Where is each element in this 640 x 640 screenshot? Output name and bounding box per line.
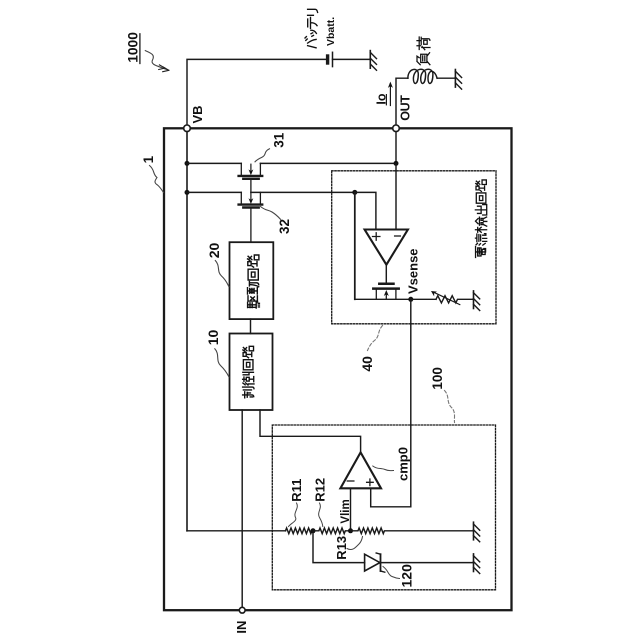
wire zener branch bbox=[313, 531, 365, 563]
svg-text:IN: IN bbox=[234, 621, 249, 634]
leader for 31 bbox=[255, 149, 270, 162]
svg-text:R13: R13 bbox=[334, 536, 349, 560]
wire comparator - input to Vlim bbox=[350, 488, 352, 531]
leader arrow for 1000 bbox=[145, 51, 169, 72]
svg-text:120: 120 bbox=[398, 564, 414, 588]
leader for R13 bbox=[347, 537, 363, 550]
wire block20 to block10 bbox=[250, 319, 252, 333]
label 1000 bbox=[126, 32, 141, 64]
node Vsense dot bbox=[408, 297, 413, 302]
svg-text:VB: VB bbox=[190, 105, 205, 123]
ground (sense resistor) bbox=[474, 291, 480, 311]
wire OUT down to wire1 junction bbox=[395, 132, 397, 164]
svg-text:R11: R11 bbox=[289, 479, 304, 502]
inductor (load) bbox=[408, 69, 437, 83]
wire2 left segment bbox=[187, 191, 241, 193]
zener diode 120 bbox=[365, 553, 385, 572]
control circuit block 10 bbox=[230, 334, 273, 411]
wire block10 to comparator output bbox=[260, 410, 361, 452]
node OUT bbox=[393, 95, 413, 132]
svg-text:40: 40 bbox=[359, 356, 375, 372]
wire VB riser to battery bbox=[187, 59, 326, 125]
resistor R11 bbox=[286, 528, 314, 534]
leader for 10 bbox=[215, 349, 229, 377]
VB rail down the left bbox=[186, 132, 188, 531]
leader for 32 bbox=[261, 207, 281, 220]
svg-text:OUT: OUT bbox=[398, 95, 412, 121]
wire op-amp output to sense FET gate bbox=[385, 265, 387, 283]
transistor 31 bbox=[239, 163, 263, 192]
junction OUT-wire1 bbox=[394, 161, 399, 166]
ground (battery) bbox=[370, 51, 376, 71]
leader for 40 (dashed) bbox=[368, 326, 383, 351]
drive circuit block 20 bbox=[230, 242, 274, 319]
svg-text:20: 20 bbox=[206, 243, 222, 259]
wire Vsense down to comparator + bbox=[371, 299, 411, 507]
wire dot to op-amp + input bbox=[355, 192, 376, 229]
transistor 32 bbox=[239, 192, 263, 242]
svg-text:R12: R12 bbox=[313, 478, 328, 502]
svg-text:31: 31 bbox=[272, 132, 287, 148]
wire1 right segment bbox=[260, 162, 396, 164]
leader for 1 bbox=[150, 166, 164, 193]
wire zener to ground bbox=[381, 562, 474, 564]
leader for cmp0 bbox=[373, 466, 394, 471]
leader for 100 (dashed) bbox=[445, 391, 455, 423]
wire inductor to ground bbox=[437, 77, 455, 79]
junction wire2 dot bbox=[352, 190, 357, 195]
svg-text:Vlim: Vlim bbox=[340, 499, 352, 523]
wire1 left segment bbox=[187, 162, 241, 164]
comparator cmp0 (pointing up) bbox=[340, 452, 381, 488]
svg-text:10: 10 bbox=[205, 330, 221, 346]
svg-text:cmp0: cmp0 bbox=[396, 447, 411, 481]
svg-text:Vsense: Vsense bbox=[405, 248, 420, 294]
resistor line from VB rail bbox=[187, 530, 286, 532]
junction R11-R12 dot bbox=[311, 528, 316, 533]
leader for 20 bbox=[215, 261, 229, 287]
svg-text:32: 32 bbox=[277, 219, 292, 234]
junction VB-wire2 bbox=[185, 190, 190, 195]
label 負荷 bbox=[417, 37, 430, 65]
leader for R11 bbox=[289, 503, 298, 527]
current-detection dashed box 40 bbox=[332, 171, 496, 324]
label バッテリ bbox=[305, 9, 318, 48]
battery B1 bbox=[328, 52, 333, 66]
svg-text:Vbatt.: Vbatt. bbox=[325, 17, 337, 46]
node VB bbox=[184, 105, 205, 131]
ground (load) bbox=[455, 70, 461, 90]
node Vlim dot bbox=[348, 528, 353, 533]
label 駆動回路 (drive circuit) in block 20 bbox=[248, 255, 260, 308]
svg-text:1: 1 bbox=[141, 155, 156, 163]
Io arrow bbox=[374, 82, 393, 106]
wire op-amp - input from wire1 junction bbox=[395, 163, 397, 229]
node IN bbox=[234, 607, 249, 633]
wire block10 left lead down to IN bbox=[241, 410, 243, 607]
leader for R12 bbox=[319, 503, 323, 527]
chip outer boundary 1 bbox=[164, 128, 512, 610]
variable resistor Rs bbox=[411, 291, 474, 305]
op-amp U1 (current sense amp, pointing down) bbox=[365, 230, 408, 265]
label 電流検出回路 (current detection circuit) bbox=[475, 180, 486, 258]
wire2 right segment bbox=[251, 191, 355, 193]
comparator dashed box 100 bbox=[272, 425, 495, 590]
wire dot down to sense rail bbox=[354, 192, 356, 299]
sense FET bbox=[355, 284, 411, 300]
resistor R13 bbox=[351, 528, 474, 534]
wire battery to ground bbox=[333, 58, 371, 60]
resistor R12 bbox=[313, 528, 351, 534]
ground (zener) bbox=[474, 554, 480, 574]
svg-text:100: 100 bbox=[430, 367, 445, 390]
label 制御回路 (control circuit) in block 10 bbox=[243, 346, 254, 398]
ground (R13) bbox=[474, 522, 480, 542]
wire OUT to load bbox=[396, 78, 408, 125]
svg-text:1000: 1000 bbox=[126, 32, 141, 63]
leader for 120 bbox=[383, 567, 400, 579]
junction VB-wire1 bbox=[185, 161, 190, 166]
